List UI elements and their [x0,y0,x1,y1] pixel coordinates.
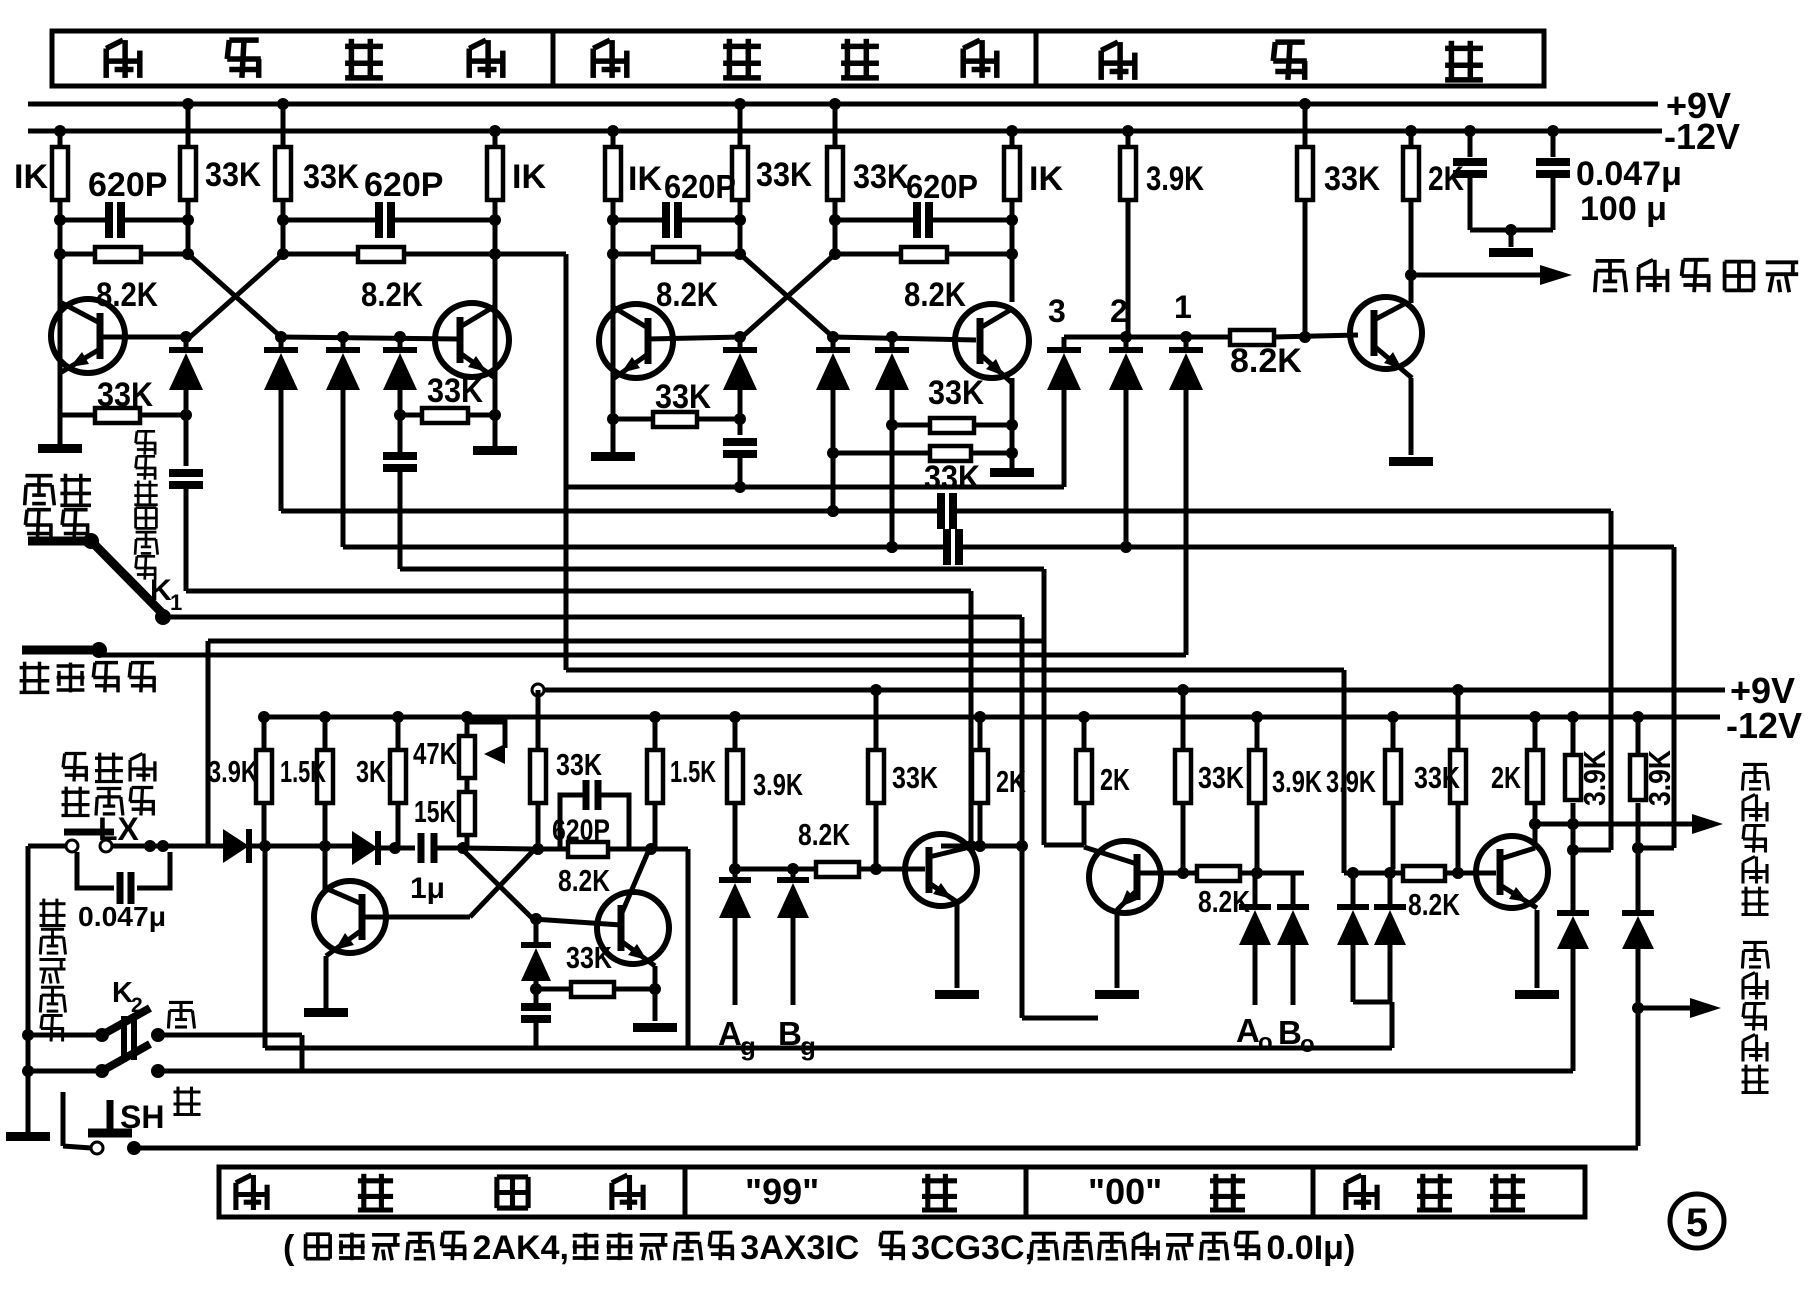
svg-text:2AK4,: 2AK4, [473,1229,569,1267]
ground Q6 [304,1008,348,1017]
resistor 2K (lower row x=1535) [1491,711,1543,803]
svg-text:8.2K: 8.2K [96,276,158,314]
svg-text:33K: 33K [1198,760,1244,795]
resistor 8.2K coupling at x=676 [607,220,746,314]
label LX [98,811,140,847]
svg-text:-12V: -12V [1664,116,1740,157]
label 机内信号 [20,662,156,694]
wire 99-gate enclosure [1022,1016,1098,1021]
resistor 3.9K (top row x=1128) [1120,125,1204,200]
wire 3.9K dropper (x=1393) [1391,803,1396,869]
resistor 3.9K (lower row x=1257) [1249,711,1322,803]
resistor 33K (lower row x=1458) [1414,690,1466,803]
banner text 99门 [745,1171,957,1212]
wire bus b1 (y=487) [566,485,1064,490]
capacitor under FF1 xA (x=186) [169,415,203,585]
wire 3.9K dropper [1126,200,1131,337]
ground Q8 [935,990,979,999]
svg-text:2K: 2K [1100,762,1130,797]
label lower -12V [1726,705,1802,746]
wire bus b4 (y=569) [400,569,1044,845]
diode (x=1573) [1557,803,1589,1071]
svg-text:IK: IK [1029,160,1063,198]
capacitor 100u [1536,125,1570,230]
banner text 计数门 [1101,41,1483,81]
svg-text:8.2K: 8.2K [904,276,966,314]
svg-text:33K: 33K [892,760,938,795]
svg-text:o: o [1300,1031,1315,1058]
resistor IK (top row x=613) [605,125,662,200]
diode 00-gate (x=1390) [1374,873,1406,1002]
label 开 [168,1002,194,1028]
svg-text:33K: 33K [655,378,711,416]
resistor 1.5K (lower row x=325) [280,711,333,803]
resistor 8.2K coupling at x=924 [829,220,1018,314]
svg-text:1: 1 [1174,289,1192,325]
label 同步置零开关 [62,753,155,817]
svg-text:620P: 620P [552,814,610,847]
ground Q9 [1095,990,1139,999]
diode monostable input 2 [352,831,415,865]
wire +9V rail [28,102,1658,107]
svg-text:1.5K: 1.5K [670,754,716,789]
svg-text:8.2K: 8.2K [1198,884,1250,919]
wire Q6 collector [323,846,328,889]
banner text 置零门 [1346,1174,1525,1211]
svg-text:A: A [1236,1012,1260,1049]
resistor IK (top row x=1012) [1004,125,1063,200]
resistor 33K (lower row x=876) [868,690,938,803]
wire Q9 emitter [1115,913,1120,988]
capacitor 1u [410,833,469,905]
wire LX to monostable [160,844,223,849]
diode Ao [1239,873,1271,1005]
label Ag [718,1015,756,1061]
label 620P (FF2 right) [906,168,978,205]
wire Q1 collector column [58,254,63,415]
label 1 [1174,289,1192,325]
svg-text:1: 1 [170,590,182,615]
resistor 1.5K (lower row x=655) [647,711,716,803]
svg-text:IK: IK [14,158,48,196]
wire 2K dropper (x=1084) [1044,803,1084,845]
svg-text:5: 5 [1686,1201,1708,1245]
wire Q5 collector to 2K [1405,200,1417,303]
banner text 计数双稳 [106,39,503,79]
svg-text:33K: 33K [924,459,980,497]
svg-text:620P: 620P [906,168,978,205]
svg-text:3.9K: 3.9K [753,767,803,802]
label Bo [1278,1014,1315,1058]
svg-text:8.2K: 8.2K [1408,887,1460,922]
wire Q6 emitter [324,956,329,1008]
resistor 15K [414,778,475,850]
wire FF2 cross-coupling [740,254,835,337]
ground Q5 [1389,457,1433,466]
svg-text:33K: 33K [1414,760,1460,795]
svg-text:33K: 33K [205,156,261,194]
diode Bg [777,869,809,1005]
svg-text:3.9K: 3.9K [1272,764,1322,799]
resistor 8.2K coupling at x=381 [277,220,501,314]
diode under Q4 base (x=892) [875,337,909,553]
resistor 33K row (Q1) [60,376,192,423]
label 620P (FF1 right) [364,166,443,204]
svg-text:33K: 33K [756,156,812,194]
wire bus b3 (y=547) [343,529,1674,565]
banner box 计数双稳/置零双稳/计数门 [52,31,1544,86]
resistor IK (top row x=495) [487,125,546,200]
resistor 3.9K (x=1573) [1565,711,1612,806]
wire bus b8 机内信号 line (y=655) [99,650,1186,655]
wire bus b7 (y=641) [208,641,1044,846]
diode Ag [719,869,751,1005]
capacitor 620P at x=115 [54,200,194,238]
svg-text:2: 2 [1110,293,1128,329]
wire 3.9K dropper to input node [262,803,267,846]
resistor 8.2K (00 gate) [1403,866,1460,922]
resistor 2K (lower row x=1084) [1076,711,1130,803]
svg-text:1μ: 1μ [410,872,445,905]
svg-text:8.2K: 8.2K [361,276,423,314]
capacitor under FF1 xB dropper (x=400) [383,415,417,569]
wire K2 upper throw [158,1035,302,1071]
svg-text:1.5K: 1.5K [280,754,326,789]
wire line B (K2) [158,1069,1573,1074]
wire line C (SH) [134,1146,1638,1151]
wire Q9 base line [1139,867,1304,879]
wire Q8 collector line [941,840,1022,852]
diode monostable (x=536) [521,913,551,1003]
wire Q4 collector column [1010,254,1015,453]
svg-text:8.2K: 8.2K [798,817,850,852]
page number circled 5 [1670,1194,1724,1248]
switch K2 [22,1008,165,1078]
svg-text:8.2K: 8.2K [1230,342,1302,380]
svg-text:g: g [740,1031,756,1061]
switch K1 lever [95,545,171,625]
diode under Q2 base (x=343) [326,337,360,547]
wire bus b2 riser [1567,511,1611,856]
svg-text:33K: 33K [427,372,483,410]
wire 15K node [463,843,544,855]
resistor 8.2K (99 gate in) [798,817,859,877]
diode under Q2 base (x=400) [383,337,417,455]
ground under Q1 column [38,415,82,453]
resistor 33K row (Q3) [607,378,746,427]
transistor Q9 [1084,841,1161,913]
resistor IK (top row x=60) [14,125,68,200]
label 100u [1580,190,1667,228]
svg-text:3AX3IC: 3AX3IC [740,1229,859,1267]
banner text 00门 [1088,1171,1245,1212]
label SH [120,1099,164,1135]
wire line A riser to 00-gate diodes [1353,1002,1392,1048]
wire 33K dropper (x=1305) [1303,200,1308,336]
wire Q1 base line [100,331,192,343]
ground Q10 [1515,990,1559,999]
diode gate 2 (x=1126) [1109,337,1143,547]
svg-text:A: A [718,1015,742,1052]
wire Q4 base line [827,331,976,343]
wire lower +9V rail [532,684,1725,696]
svg-text:33K: 33K [1324,160,1380,198]
svg-text:2: 2 [131,994,143,1017]
label 停 [174,1087,201,1116]
transistor Q6 (monostable left) [314,881,386,956]
ground bottom-left [6,1132,50,1141]
wire 33K dropper (x=538) [536,803,541,849]
diode gate 3 (x=1064) [1047,337,1081,487]
wire bus b3 riser [1632,547,1674,854]
svg-text:"99": "99" [745,1171,819,1212]
label -12V [1664,116,1740,157]
label 机内信号 contact [22,642,107,658]
wire monostable main line [265,840,352,852]
capacitor 620P at x=672 [607,200,746,238]
label 停开车开关 [40,899,66,1042]
label 工作信号 [25,474,91,541]
svg-text:3.9K: 3.9K [1577,749,1612,806]
ground under Q2 column [473,415,517,455]
wire left riser x=28 [26,846,31,1132]
wire reset output arrow 1 [1535,814,1723,834]
label Ao [1236,1012,1273,1056]
wire lower -12V rail [264,715,1720,720]
wire counting input arrow [1411,265,1572,285]
transistor Q10 (00 gate) [1476,836,1548,908]
wire Q8 emitter [955,902,960,988]
svg-text:3K: 3K [356,754,386,789]
svg-text:B: B [1278,1014,1302,1051]
wire Q7 base [533,919,621,925]
svg-text:3: 3 [1048,293,1066,329]
resistor 33K row (Q2) [394,372,501,423]
svg-text:2K: 2K [996,764,1026,799]
wire 3.9K dropper (x=1257) [1255,803,1260,873]
label K2 [112,977,143,1017]
wire 33K dropper (x=1183) [1181,803,1186,873]
svg-text:33K: 33K [556,747,602,782]
resistor 8.2K (gate) [1230,330,1358,380]
label 620P (FF1 left) [88,166,167,204]
svg-text:0.0Iμ): 0.0Iμ) [1266,1229,1355,1267]
diode gate 1 (x=1186) [1169,337,1203,655]
wire FF1 output to bus (x=566 vertical) [495,254,1344,873]
wire 33K dropper (x=1458) [1456,803,1461,873]
svg-text:620P: 620P [364,166,443,204]
svg-text:3.9K: 3.9K [208,754,258,789]
label 信号转换开关 [134,431,157,579]
svg-text:15K: 15K [414,794,456,829]
svg-text:0.047μ: 0.047μ [1576,155,1682,193]
resistor 3.9K (x=1638) [1630,711,1677,806]
transistor Q5 (counting gate) [1350,297,1422,378]
svg-text:33K: 33K [303,158,359,196]
svg-text:33K: 33K [853,158,909,196]
label 接计数置零 (2) [1742,942,1769,1093]
svg-text:3.9K: 3.9K [1642,749,1677,806]
diode under Q3 base (x=740) [723,337,757,419]
capacitor under FF2 xA (x=740) [723,419,757,493]
diode Bo [1277,873,1309,1005]
wire monostable to x=688 [629,843,688,855]
resistor 8.2K coupling at x=118 [54,220,194,314]
wire Q2 collector column [493,254,498,415]
wire cap bottoms [1470,224,1553,247]
label Bg [778,1015,816,1061]
resistor 2K (lower row x=980) [972,711,1026,803]
wire -12V rail [28,129,1662,134]
label 3 [1048,293,1066,329]
wire Q3 collector column [611,254,616,419]
banner text 置零双稳 [593,39,997,79]
capacitor 620P at x=385 [277,200,501,238]
resistor 33K (top row x=283) [275,98,359,200]
resistor 33K (lower row x=538) [530,690,602,803]
caption (二极管均为2AK4...) [283,1229,1355,1267]
wire Q3 base line [648,331,746,343]
svg-text:620P: 620P [88,166,167,204]
wire Q2 base line [275,331,458,343]
label 0.047u [1576,155,1682,193]
resistor 33K (top row x=740) [732,98,812,200]
svg-text:g: g [800,1031,816,1061]
label 接计数置零 (1) [1742,764,1769,915]
svg-text:8.2K: 8.2K [656,276,718,314]
diode under Q1 base (x=186) [169,337,203,415]
label 620P (FF2 left) [664,168,736,205]
svg-text:3.9K: 3.9K [1326,764,1376,799]
switch LX [28,832,169,852]
wire Q7 collector [648,849,651,852]
svg-text:33K: 33K [97,376,153,414]
ground under Q4 column [990,453,1034,477]
ground filter caps [1489,248,1533,257]
svg-text:3CG3C,: 3CG3C, [911,1229,1034,1267]
transistor Q8 (99 gate) [905,834,977,906]
svg-text:0.047μ: 0.047μ [78,901,166,932]
svg-text:100 μ: 100 μ [1580,190,1667,228]
label 接计数输入 [1595,260,1798,292]
transistor Q1 [51,299,125,373]
wire monostable cross-coupling [463,850,533,919]
wire monostable output drop [686,849,691,1048]
diode (x=1638) [1622,803,1654,1146]
wire 2K to Q10 collector [1529,803,1541,846]
wire Q10 emitter [1535,910,1540,988]
wire 00-gate base line [1344,867,1496,879]
wire 1.5K dropper [323,803,328,846]
resistor 2K (top row x=1411) [1403,125,1464,200]
wire 33K dropper (x=876) [874,803,879,869]
svg-text:K: K [150,574,172,607]
wire signal input stub [28,533,99,549]
svg-text:2K: 2K [1491,760,1521,795]
wire 2K dropper (x=980) [978,803,983,846]
wire gate diode line [1064,331,1311,343]
resistor 33K (monostable) [536,940,655,997]
switch SH [63,1092,141,1155]
label lower +9V [1730,670,1795,711]
label 2 [1110,293,1128,329]
label K1 [150,574,182,615]
capacitor 0.047u (LX) [77,852,170,932]
wire Q7 emitter [649,966,661,1021]
svg-text:8.2K: 8.2K [558,863,610,898]
wire Q6 base [364,915,470,920]
resistor 8.2K (Q9 base) [1197,866,1250,919]
wire bus b6 K1 line (y=617) [163,617,1028,1018]
transistor Q7 (monostable right) [597,852,669,966]
ground Q7 [633,1023,677,1032]
potentiometer 47K [413,711,505,778]
ground under Q3 column [591,419,635,461]
resistor 3.9K (lower row x=735) [727,711,803,803]
banner box 置零单稳/99门/00门/置零门 [219,1167,1585,1217]
resistor 3.9K (lower row x=1393) [1326,711,1401,803]
resistor 3K (lower row x=398) [356,711,406,803]
wire bus b5 (y=591) [186,585,971,846]
svg-text:(: ( [283,1229,295,1267]
svg-text:B: B [778,1015,802,1052]
svg-text:620P: 620P [664,168,736,205]
resistor 33K row2 (Q4) [833,446,1018,497]
svg-text:SH: SH [120,1099,164,1135]
diode monostable input 1 [223,829,271,863]
svg-text:33K: 33K [928,374,984,412]
svg-text:"00": "00" [1088,1171,1162,1212]
svg-text:IK: IK [628,160,662,198]
capacitor 620P at x=923 [829,200,1018,238]
diode 00-gate (x=1353) [1337,873,1369,1002]
resistor 33K (top row x=835) [827,98,909,200]
resistor 3.9K (lower row x=264) [208,711,272,803]
label +9V [1666,85,1731,126]
wire riser input to line A [263,846,268,1048]
diode under Q2 base (x=281) [264,337,298,511]
svg-text:K: K [112,977,133,1009]
wire 3K dropper [396,803,401,848]
svg-text:3.9K: 3.9K [1146,160,1204,198]
svg-text:o: o [1258,1029,1273,1056]
resistor 33K row1 (Q4) [892,374,1018,433]
resistor 33K (lower row x=1183) [1175,690,1244,803]
capacitor 620P (monostable) [533,780,629,898]
transistor Q2 [435,303,509,378]
svg-text:47K: 47K [413,736,457,771]
wire Q5 emitter to ground [1409,378,1414,455]
wire reset output arrow 2 [1638,998,1721,1018]
wire bus b2 (y=511) [281,493,1611,529]
wire 1.5K dropper (x=655) [653,803,658,849]
resistor 33K (top row x=1305) [1297,98,1380,200]
transistor Q3 [599,304,673,379]
resistor 33K (top row x=188) [180,98,261,200]
svg-text:-12V: -12V [1726,705,1802,746]
wire 99-gate base line [729,863,925,875]
capacitor 0.047u [1453,125,1487,230]
svg-text:33K: 33K [566,940,612,975]
wire 3.9K dropper (x=735) [733,803,738,869]
wire line A [265,1046,1392,1051]
svg-text:IK: IK [512,158,546,196]
capacitor (monostable bottom) [521,1007,551,1048]
wire FF1 cross-coupling [188,254,283,337]
transistor Q4 [955,304,1029,383]
diode under Q4 base (x=833) [816,337,850,517]
banner text 置零单稳 [236,1174,643,1211]
